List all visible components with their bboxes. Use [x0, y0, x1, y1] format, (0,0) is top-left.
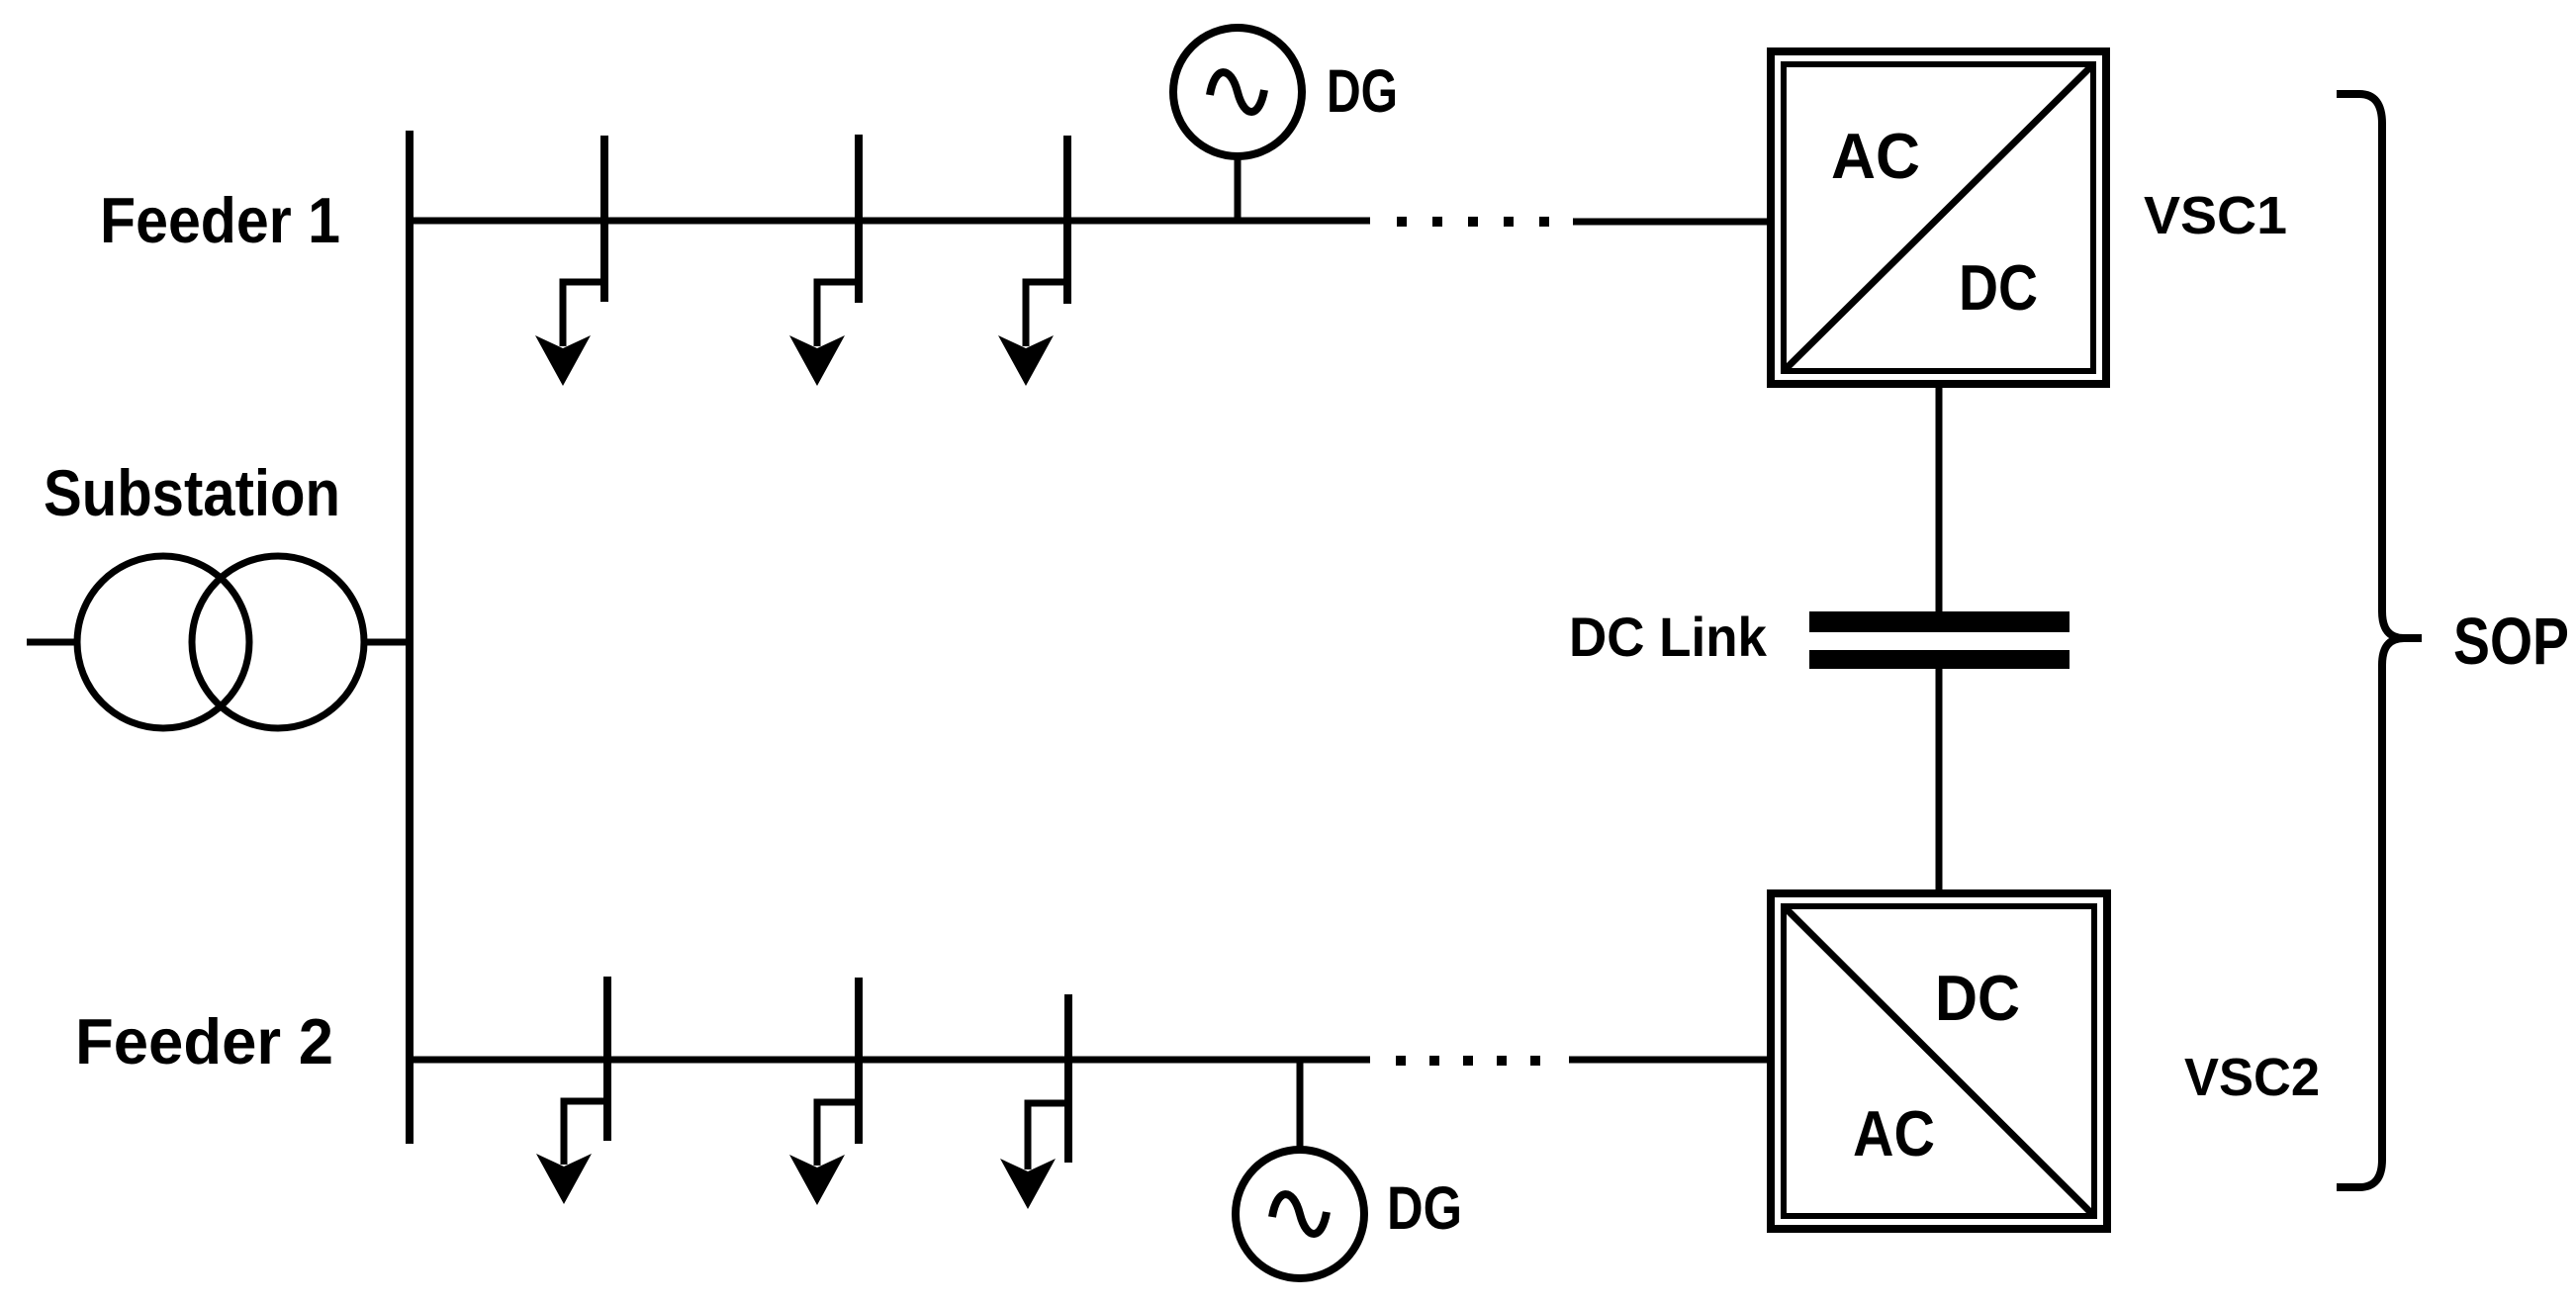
svg-text:DC Link: DC Link — [1569, 606, 1768, 668]
svg-text:AC: AC — [1853, 1097, 1935, 1169]
svg-text:VSC2: VSC2 — [2184, 1048, 2320, 1107]
svg-text:Feeder 2: Feeder 2 — [75, 1005, 333, 1077]
load L5 on feeder 2 — [817, 978, 859, 1166]
brace SOP — [2337, 94, 2422, 1187]
transformer T1 — [27, 556, 410, 728]
wire VSC1 to DC link — [1936, 384, 1943, 613]
svg-text:AC: AC — [1831, 120, 1920, 192]
load L6 on feeder 2 — [1028, 994, 1068, 1169]
load L1 on feeder 1 — [563, 136, 604, 346]
VSC2 converter — [1771, 893, 2107, 1229]
wire feeder 2 dots — [1396, 1056, 1540, 1066]
svg-text:DG: DG — [1327, 57, 1398, 125]
svg-text:DG: DG — [1387, 1174, 1462, 1242]
svg-text:Feeder 1: Feeder 1 — [100, 184, 340, 256]
svg-text:VSC1: VSC1 — [2144, 186, 2287, 245]
wire feeder 1 dots — [1397, 217, 1549, 227]
VSC1 converter — [1771, 51, 2106, 384]
substation bus — [406, 131, 414, 1144]
svg-text:Substation: Substation — [44, 456, 340, 529]
svg-text:DC: DC — [1935, 962, 2020, 1034]
svg-text:SOP: SOP — [2453, 605, 2569, 679]
wire feeder 1 main — [410, 218, 1370, 225]
svg-text:DC: DC — [1959, 251, 2038, 324]
wire DC link to VSC2 — [1936, 667, 1943, 893]
load L2 on feeder 1 — [817, 135, 859, 346]
DG source on feeder 2 — [1236, 1060, 1364, 1278]
capacitor DC link — [1809, 611, 2070, 632]
wire feeder 2 main — [410, 1057, 1370, 1064]
load L3 on feeder 1 — [1026, 136, 1067, 346]
wire feeder 2 to VSC2 — [1569, 1057, 1771, 1064]
load L4 on feeder 2 — [564, 977, 607, 1165]
wire feeder 1 to VSC1 — [1573, 219, 1771, 226]
DG source on feeder 1 — [1173, 28, 1302, 221]
